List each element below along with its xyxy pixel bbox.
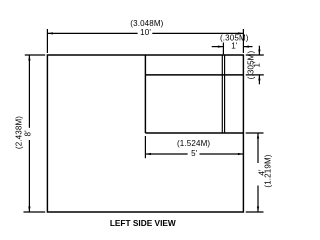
svg-text:1': 1' [253,61,262,68]
svg-text:10': 10' [140,28,151,37]
svg-text:(1.524M): (1.524M) [177,139,210,148]
svg-text:(1.219M): (1.219M) [264,154,273,187]
svg-text:(2.438M): (2.438M) [14,116,23,149]
svg-text:(3.048M): (3.048M) [130,19,163,28]
svg-text:LEFT SIDE VIEW: LEFT SIDE VIEW [110,218,176,228]
svg-text:8': 8' [23,130,32,137]
svg-text:5': 5' [191,149,198,158]
svg-text:1': 1' [231,42,238,51]
